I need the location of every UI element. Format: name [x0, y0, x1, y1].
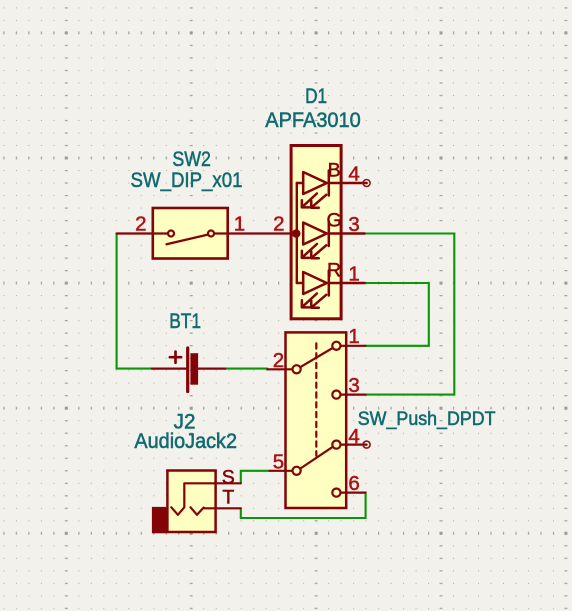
svg-text:3: 3: [348, 374, 359, 397]
svg-text:1: 1: [348, 325, 359, 348]
svg-text:2: 2: [273, 349, 284, 372]
svg-text:S: S: [222, 466, 235, 488]
svg-text:6: 6: [348, 472, 359, 495]
svg-text:SW_DIP_x01: SW_DIP_x01: [131, 168, 243, 192]
svg-text:BT1: BT1: [169, 309, 201, 333]
svg-text:AudioJack2: AudioJack2: [134, 429, 237, 453]
svg-text:D1: D1: [305, 84, 327, 108]
svg-text:5: 5: [273, 450, 284, 473]
svg-text:1: 1: [234, 213, 245, 236]
svg-text:1: 1: [348, 262, 359, 285]
svg-text:4: 4: [348, 163, 359, 186]
svg-text:T: T: [222, 486, 234, 508]
svg-text:R: R: [327, 259, 341, 281]
svg-text:B: B: [328, 159, 341, 181]
svg-text:2: 2: [135, 213, 146, 236]
svg-text:APFA3010: APFA3010: [265, 108, 361, 132]
svg-text:SW_Push_DPDT: SW_Push_DPDT: [358, 408, 496, 430]
svg-text:2: 2: [273, 213, 284, 236]
svg-text:3: 3: [348, 213, 359, 236]
svg-text:G: G: [327, 209, 342, 231]
